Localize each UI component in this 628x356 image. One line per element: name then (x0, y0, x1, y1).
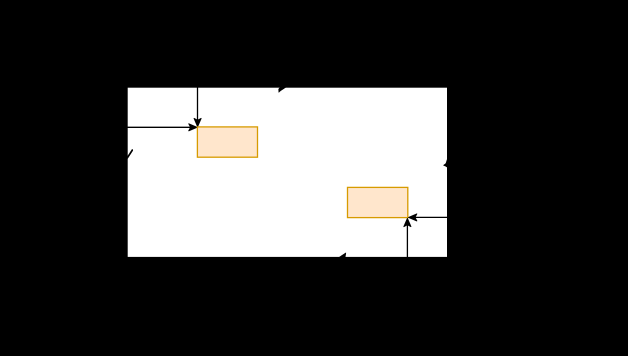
arrowhead C (points left at B2 bottom-right corner) (409, 214, 417, 221)
border mark M1 (clipped arrowhead on top border, pointing down-left) (279, 87, 286, 92)
arrowhead D (points up at B2 bottom-right corner) (404, 218, 411, 226)
container (white canvas rectangle) (128, 88, 447, 257)
wire B (horizontal segment from left border to box B1) (127, 126, 191, 128)
wire D (vertical segment from bottom border up to box B2) (406, 225, 408, 258)
box B2 (orange process node) (348, 187, 408, 217)
border mark M3 (clipped arrowhead on right border, pointing down-left) (443, 159, 447, 167)
wire A (vertical segment from top border down to box B1) (197, 86, 199, 120)
box B1 (orange process node) (197, 127, 257, 157)
arrowhead B (points right at B1 top-left corner) (189, 124, 197, 131)
border mark M2 (clipped arrowhead on left border, pointing up-right) (128, 149, 133, 159)
arrowhead A (points down at B1 top-left corner) (194, 118, 201, 126)
wire C (horizontal segment from right border to box B2) (415, 216, 449, 218)
border mark M4 (clipped arrowhead on bottom border, pointing up-right) (339, 253, 346, 258)
